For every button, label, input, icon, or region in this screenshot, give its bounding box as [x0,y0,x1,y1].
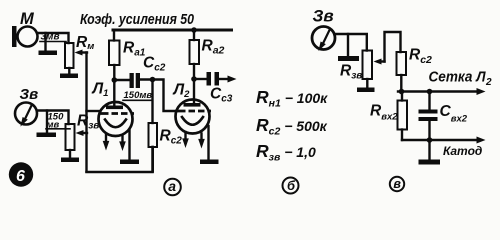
resistor Rс2 [151,80,153,124]
label (а) [164,179,181,196]
svg-text:Зв: Зв [313,7,334,26]
svg-text:Зв: Зв [20,86,39,103]
svg-text:Rзв: Rзв [77,112,99,131]
bottom return wire [87,147,153,172]
ground bar Rзв [61,158,79,163]
grid wire to Л1 [87,110,99,112]
output wire arrow [219,78,228,80]
ground stem mic [44,33,46,51]
grid node line Сетка [398,90,477,92]
svg-text:Свх2: Свх2 [440,103,468,125]
svg-text:а: а [168,178,176,194]
cathode lead Л1 [128,130,130,160]
svg-text:Rс2: Rс2 [409,47,432,66]
label (в) [390,177,404,191]
wiper arrow Rзв [80,132,87,134]
junction Rс2 top [150,77,156,83]
svg-text:Rвх2: Rвх2 [370,103,398,123]
wiper arrow Rм [79,51,87,53]
heater arrows Л1 [105,134,107,142]
triode Л2 [176,100,210,134]
svg-text:Катод: Катод [443,144,482,158]
wire mic to Rм [38,33,69,43]
cathode arc Л2 [182,117,203,125]
ground bar Л2 [200,160,219,165]
anode bar Л2 [184,103,201,107]
wiper arrow Rзв (в) [378,60,385,62]
wiper bridge wire [385,32,401,62]
resistor Rа2 [190,40,200,64]
triode Л1 [99,102,133,136]
resistor Rс2 (в) [397,52,407,75]
svg-text:б: б [287,178,296,193]
svg-text:150мв: 150мв [124,90,153,101]
anode lead Л2 [193,64,195,105]
svg-text:Rм: Rм [76,34,94,52]
anode lead Л1 [113,65,115,107]
svg-text:М: М [20,10,35,28]
pickup Зв circle (в) [312,27,335,50]
capacitor Cс2 [130,73,134,88]
junction anode1 [112,77,118,83]
capacitor Cвх2 [428,92,430,110]
label (б) [283,178,299,194]
junction rail/Rа2 [191,27,197,33]
ground bar mic [39,51,58,56]
svg-text:6: 6 [16,168,25,185]
svg-text:Л2: Л2 [173,81,191,100]
wire pickup to Rзв [38,111,69,125]
cathode arc Л1 [105,120,126,128]
svg-text:Сс2: Сс2 [143,54,166,73]
common grid wire vertical [85,53,87,172]
wire Cс2 to Л2 grid [140,80,175,112]
svg-text:Коэф. усиления 50: Коэф. усиления 50 [80,11,195,28]
resistor Rвх2 [401,92,403,101]
resistor Rа1 [113,31,115,41]
microphone M body bar [12,26,17,47]
svg-text:Сс3: Сс3 [210,85,233,104]
ground bar pickup [37,133,57,138]
ground bar Rзв (в) [357,88,375,93]
B+ rail [113,29,232,32]
svg-text:Rзв: Rзв [340,62,362,81]
pickup Зв arrow [25,105,33,121]
cathode lead Л2 [207,126,209,160]
grid dashes Л2 [178,110,212,113]
potentiometer Rзв [66,124,75,150]
ground stem (в) [428,140,430,160]
ground stem Rзв [69,150,71,158]
svg-text:Сетка Л: Сетка Л [429,70,487,86]
wire to Cс2 [114,79,129,81]
ground bar Rм [60,74,78,79]
cathode node line Катод [402,139,477,141]
heater arrows Л2 [184,132,186,139]
potentiometer Rзв (в) [363,51,373,80]
pickup Зв circle [15,103,37,125]
ground stem pickup [46,111,48,133]
svg-text:Rс2 − 500к: Rс2 − 500к [256,115,328,138]
ground stem pickup (в) [347,34,349,56]
svg-text:Л1: Л1 [92,80,109,99]
ground bar pickup (в) [338,56,359,61]
svg-text:в: в [393,177,401,191]
svg-text:2: 2 [485,77,492,88]
svg-text:Rс2: Rс2 [160,127,183,146]
microphone M circle [18,27,38,47]
wire to Cс3 [194,78,207,80]
svg-text:Rа2: Rа2 [202,37,225,56]
svg-text:Rн1 − 100к: Rн1 − 100к [256,87,328,110]
stem Rс2 to grid line [400,75,402,92]
figure number 6 [9,162,33,186]
junction anode2 [191,76,197,82]
ground stem Rм [68,68,70,74]
ground bar Л1 [120,160,139,165]
anode bar Л1 [106,106,123,110]
potentiometer Rм [65,43,74,68]
pickup Зв arrow (в) [323,29,331,45]
wire pickup to Rзв (в) [335,34,367,51]
capacitor Cс3 [207,72,212,86]
ground stem Rзв (в) [366,79,368,88]
svg-text:Rзв − 1,0: Rзв − 1,0 [256,141,316,164]
grid dashes Л1 [101,112,135,115]
ground bar (в) [419,160,441,165]
